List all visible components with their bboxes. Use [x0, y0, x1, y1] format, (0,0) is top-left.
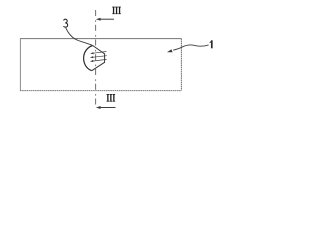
label III top [112, 7, 121, 14]
label 3 [64, 19, 68, 27]
leader line of 1 [173, 45, 208, 50]
arrow a1 [90, 52, 106, 55]
arrow a3 [90, 59, 107, 62]
label III bottom [107, 94, 116, 101]
label 1 [210, 40, 212, 48]
bottom section arrow [96, 106, 116, 109]
spot 3 right facet [92, 46, 105, 71]
section line III-III [95, 10, 97, 105]
spot 3 left arc [84, 46, 93, 71]
arrow a2 [90, 56, 107, 59]
arrowhead of leader 1 [167, 49, 173, 52]
leader line of 3 [66, 28, 93, 45]
top section arrow [96, 18, 114, 21]
plate 1 outline [20, 39, 181, 91]
